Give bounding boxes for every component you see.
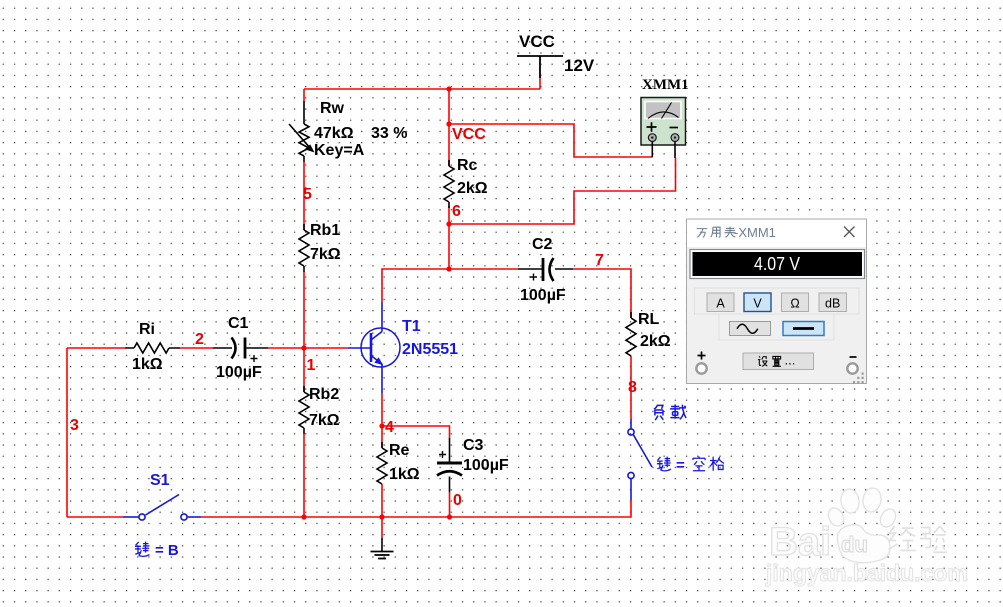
node dot rail Rb bbox=[301, 514, 306, 519]
button Ohm bbox=[782, 293, 809, 312]
wire XMM1 plus path bbox=[449, 124, 653, 157]
wire top rail Rw-top to VCC lead bbox=[304, 88, 540, 90]
resistor Ri body bbox=[125, 343, 180, 353]
svg-text:2kΩ: 2kΩ bbox=[640, 333, 671, 350]
svg-text:3: 3 bbox=[70, 417, 79, 434]
svg-text:12V: 12V bbox=[564, 56, 595, 75]
dialog plus label bbox=[698, 352, 706, 360]
svg-text:4: 4 bbox=[385, 419, 394, 436]
dialog group box 2 bbox=[719, 314, 834, 340]
wire C1 to node 1 bbox=[268, 347, 304, 349]
button AC bbox=[730, 322, 771, 336]
wire ground stub bbox=[381, 517, 383, 538]
switch J2 top lead bbox=[630, 419, 632, 429]
svg-text:C1: C1 bbox=[228, 315, 249, 332]
label load : 负载 bbox=[654, 404, 686, 420]
svg-text:= B: = B bbox=[155, 542, 179, 559]
transistor T1 emitter arrow bbox=[374, 357, 383, 365]
svg-text:8: 8 bbox=[628, 379, 637, 396]
svg-text:47kΩ: 47kΩ bbox=[314, 125, 354, 142]
XMM1 plus lead bbox=[651, 142, 653, 158]
node dot top rail bbox=[446, 86, 451, 91]
svg-text:Ri: Ri bbox=[139, 321, 155, 338]
settings text 设置... bbox=[758, 356, 781, 366]
switch S1 right contact bbox=[181, 514, 187, 520]
XMM1 plus terminal bbox=[648, 134, 656, 142]
svg-text:dB: dB bbox=[825, 297, 840, 311]
dialog plus terminal bbox=[696, 363, 706, 373]
wire Re bottom to rail bbox=[381, 484, 383, 517]
svg-text:=: = bbox=[676, 457, 685, 474]
XMM1 plus mark bbox=[647, 122, 657, 131]
svg-text:Re: Re bbox=[389, 442, 410, 459]
svg-text:6: 6 bbox=[452, 203, 461, 220]
potentiometer Rw arrowhead bbox=[305, 144, 315, 152]
wire emitter red part to node 4 bbox=[381, 393, 383, 448]
wire Rb2 bottom to bottom rail bbox=[303, 434, 305, 517]
transistor T1 base lead bbox=[348, 347, 371, 349]
capacitor C2 bbox=[518, 258, 573, 281]
svg-text:V: V bbox=[753, 297, 762, 311]
paw toes bbox=[825, 487, 898, 563]
resistor Rb2 body bbox=[299, 386, 309, 434]
dialog resize grip bbox=[853, 373, 864, 384]
wire XMM1 minus path bbox=[449, 158, 676, 224]
potentiometer arrow Rw bbox=[289, 124, 311, 149]
XMM1 needle bbox=[662, 103, 672, 119]
wire Rc bottom to node 6 bbox=[448, 206, 450, 269]
wire Ri to C1 bbox=[180, 347, 213, 349]
dialog minus terminal bbox=[847, 363, 857, 373]
wire bottom rail left of S1 bbox=[67, 516, 123, 518]
node dot 1 bbox=[301, 345, 306, 350]
svg-text:C2: C2 bbox=[532, 236, 553, 253]
switch S1 blade bbox=[146, 495, 180, 516]
svg-text:-XMM1: -XMM1 bbox=[734, 225, 776, 240]
wire node6 to C2 left bbox=[449, 268, 518, 270]
switch S1 left lead bbox=[123, 516, 139, 518]
svg-text:VCC: VCC bbox=[452, 126, 486, 143]
capacitor C3 bbox=[437, 438, 462, 492]
wire VCC lead red part bbox=[539, 78, 541, 89]
node dot rail gnd bbox=[379, 514, 384, 519]
wire bottom rail right of S1 bbox=[201, 516, 449, 518]
经 watermark bbox=[888, 526, 915, 550]
dialog title bar bbox=[687, 220, 866, 248]
button A bbox=[707, 293, 734, 312]
svg-text:XMM1: XMM1 bbox=[642, 77, 689, 93]
button DC (active) bbox=[783, 322, 824, 336]
wire node4 to C3 top bbox=[382, 426, 450, 438]
node dot 6 lower bbox=[446, 266, 451, 271]
svg-text:1kΩ: 1kΩ bbox=[132, 356, 163, 373]
svg-text:T1: T1 bbox=[402, 318, 421, 335]
dialog group box 1 bbox=[695, 288, 860, 314]
svg-text:RL: RL bbox=[638, 311, 660, 328]
svg-text:2kΩ: 2kΩ bbox=[457, 180, 488, 197]
svg-text:Rc: Rc bbox=[457, 157, 478, 174]
dialog title text 万用表-XMM1 bbox=[697, 226, 736, 237]
svg-text:100µF: 100µF bbox=[520, 287, 566, 304]
svg-text:1kΩ: 1kΩ bbox=[389, 466, 420, 483]
XMM1 display bbox=[645, 102, 681, 119]
svg-text:7kΩ: 7kΩ bbox=[309, 412, 340, 429]
resistor Rw body bbox=[299, 101, 309, 162]
svg-text:VCC: VCC bbox=[519, 32, 555, 51]
transistor T1 base bar bbox=[370, 333, 373, 362]
dialog close X bbox=[844, 227, 855, 238]
wire C3 bottom red bbox=[449, 492, 451, 517]
transistor T1 collector bbox=[371, 302, 382, 340]
VCC power symbol bbox=[517, 56, 563, 78]
switch J2 bottom lead bbox=[630, 479, 632, 500]
dialog display black bbox=[693, 252, 863, 276]
switch S1 right lead bbox=[187, 516, 201, 518]
svg-text:Rb1: Rb1 bbox=[310, 222, 340, 239]
wire left input column bbox=[66, 348, 68, 517]
transistor T1 emitter bbox=[371, 356, 382, 394]
capacitor C1 bbox=[213, 338, 268, 363]
button dB bbox=[819, 293, 847, 312]
svg-text:Key=A: Key=A bbox=[314, 142, 365, 159]
svg-text:2: 2 bbox=[195, 331, 204, 348]
svg-text:2N5551: 2N5551 bbox=[402, 341, 458, 358]
button V (active) bbox=[744, 293, 771, 312]
switch J2 bottom contact bbox=[628, 472, 634, 478]
XMM1 minus mark bbox=[670, 127, 679, 129]
resistor Rb1 body bbox=[299, 224, 309, 272]
svg-text:jingyan.baidu.com: jingyan.baidu.com bbox=[765, 560, 968, 586]
switch S1 left contact bbox=[139, 514, 145, 520]
svg-text:5: 5 bbox=[303, 186, 312, 203]
svg-text:Ω: Ω bbox=[790, 297, 799, 311]
svg-text:100µF: 100µF bbox=[463, 457, 509, 474]
node dot 4 bbox=[379, 423, 384, 428]
resistor Rc body bbox=[444, 160, 454, 208]
验 watermark bbox=[920, 526, 947, 552]
resistor RL body bbox=[626, 312, 636, 356]
svg-text:1: 1 bbox=[307, 357, 316, 374]
wire top rail to VCC node bbox=[448, 89, 450, 124]
svg-text:C3: C3 bbox=[463, 437, 484, 454]
node dot VCC bbox=[446, 121, 451, 126]
switch J2 top contact bbox=[628, 429, 634, 435]
ground bbox=[371, 538, 394, 559]
resistor Re body bbox=[377, 442, 387, 484]
wire Rw top red stub bbox=[303, 89, 305, 101]
XMM1 body bbox=[641, 98, 686, 146]
wire Rb1 bottom to node 1 bbox=[303, 272, 305, 348]
wire switch J2 bottom to rail bbox=[449, 500, 631, 517]
svg-text:7: 7 bbox=[595, 252, 604, 269]
svg-text:A: A bbox=[716, 297, 725, 311]
svg-text:Rw: Rw bbox=[320, 100, 345, 117]
node dot rail C3 bbox=[447, 514, 452, 519]
svg-text:0: 0 bbox=[453, 492, 462, 509]
label key B : 键 = B bbox=[135, 542, 150, 557]
switch J2 blade bbox=[633, 435, 652, 467]
svg-text:Rb2: Rb2 bbox=[309, 386, 339, 403]
label key space : 键 = 空格 bbox=[657, 456, 724, 471]
svg-text:4.07 V: 4.07 V bbox=[754, 254, 800, 274]
XMM1 minus terminal bbox=[671, 134, 679, 142]
wire collector to node6 rail bbox=[382, 269, 449, 302]
wire C2 right to RL top bbox=[573, 269, 631, 318]
wire node1 to Rb2 top bbox=[303, 348, 305, 392]
dialog minus label bbox=[850, 356, 857, 358]
wire VCC node to Rc bbox=[448, 124, 450, 166]
wire Rw bottom to Rb1 top bbox=[303, 162, 305, 230]
dialog settings button bbox=[743, 353, 814, 370]
svg-text:du: du bbox=[841, 532, 868, 557]
wire node1 to base bbox=[304, 347, 348, 349]
dialog body bbox=[687, 219, 867, 384]
transistor T1 circle bbox=[361, 328, 400, 367]
XMM1 scale arc bbox=[648, 112, 679, 119]
wire RL bottom to switch J2 bbox=[630, 356, 632, 419]
svg-text:7kΩ: 7kΩ bbox=[310, 246, 341, 263]
svg-text:...: ... bbox=[785, 353, 796, 368]
svg-text:Bai: Bai bbox=[769, 520, 831, 564]
XMM1 minus lead bbox=[674, 142, 676, 159]
svg-text:100µF: 100µF bbox=[216, 364, 262, 381]
wire left top to Ri bbox=[67, 347, 125, 349]
svg-text:S1: S1 bbox=[150, 472, 170, 489]
node dot 6 upper bbox=[446, 221, 451, 226]
dialog display bezel bbox=[690, 250, 865, 279]
svg-text:33 %: 33 % bbox=[371, 125, 407, 142]
